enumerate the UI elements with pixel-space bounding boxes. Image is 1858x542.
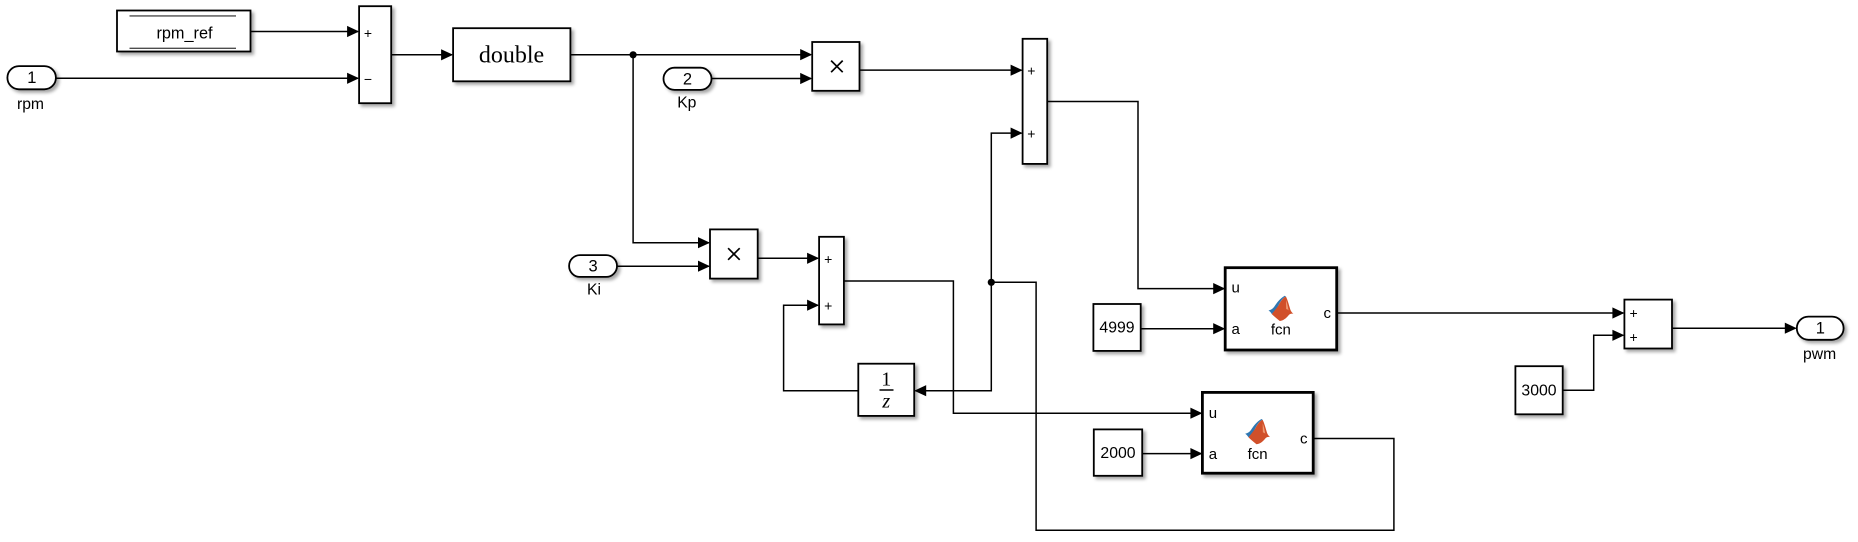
Product1 <box>812 42 859 91</box>
wire Product1 to Sum2 <box>860 69 1022 71</box>
wire Constant 4999 to fcn1 a <box>1141 328 1224 330</box>
svg-text:+: + <box>364 25 372 41</box>
svg-text:Kp: Kp <box>677 94 696 111</box>
svg-text:double: double <box>479 43 544 69</box>
svg-text:+: + <box>1630 305 1638 321</box>
Constant 2000 <box>1094 429 1142 475</box>
wire junction down to Unit Delay input <box>915 282 991 390</box>
svg-text:1: 1 <box>1816 320 1825 338</box>
Inport 1 rpm <box>7 66 56 113</box>
svg-text:1: 1 <box>27 69 36 87</box>
Constant 4999 <box>1093 304 1140 351</box>
Outport 1 pwm <box>1797 317 1844 363</box>
svg-text:+: + <box>824 297 832 313</box>
wire Constant 2000 to fcn2 a <box>1142 453 1201 455</box>
svg-text:c: c <box>1300 431 1308 448</box>
svg-text:3000: 3000 <box>1521 383 1556 400</box>
svg-text:4999: 4999 <box>1099 320 1134 337</box>
wire Product2 to Sum3 <box>758 257 818 259</box>
wire Inport3 Ki to Product2 <box>617 265 709 267</box>
svg-text:Ki: Ki <box>587 281 601 298</box>
svg-text:a: a <box>1209 446 1218 463</box>
svg-text:fcn: fcn <box>1271 321 1291 338</box>
svg-text:+: + <box>824 251 832 267</box>
Sum2 tall plus-plus <box>1023 39 1048 164</box>
svg-text:pwm: pwm <box>1803 346 1836 363</box>
svg-text:u: u <box>1209 405 1217 422</box>
svg-text:a: a <box>1232 321 1241 338</box>
wire fcn1 c to Sum4 <box>1337 312 1624 314</box>
Sum1 plus-minus <box>359 6 391 103</box>
MATLAB Function fcn1 <box>1225 268 1337 350</box>
svg-text:fcn: fcn <box>1248 446 1268 463</box>
wire Sum3 to fcn2 u <box>844 281 1201 413</box>
wire Inport1 to Sum1 <box>56 77 358 79</box>
wire double to Product1 <box>570 54 811 56</box>
MATLAB Function fcn2 <box>1202 392 1313 473</box>
svg-text:rpm_ref: rpm_ref <box>156 25 213 43</box>
matlab logo fcn2 <box>1245 419 1270 444</box>
Inport 2 Kp <box>664 68 712 112</box>
wire junction down to Product2 <box>633 55 709 243</box>
Sum3 integrator plus-plus <box>819 237 844 325</box>
svg-text:2: 2 <box>683 70 692 88</box>
svg-text:rpm: rpm <box>17 96 44 113</box>
wire fcn2 c feedback loop <box>991 282 1394 530</box>
From Workspace rpm_ref <box>117 11 251 52</box>
wire junction up to Sum2 second input <box>991 133 1021 282</box>
svg-text:1: 1 <box>881 369 891 391</box>
wire Unit Delay out to Sum3 second input <box>784 305 859 391</box>
wire Constant 3000 to Sum4 <box>1563 335 1624 390</box>
matlab logo fcn1 <box>1269 296 1294 321</box>
Inport 3 Ki <box>569 255 617 298</box>
svg-text:c: c <box>1324 305 1332 322</box>
node junction dot feedback <box>988 279 995 286</box>
svg-text:3: 3 <box>589 257 598 275</box>
node junction dot after double <box>630 51 637 58</box>
Constant 3000 <box>1515 366 1562 414</box>
wire Sum1 to double <box>391 54 452 56</box>
wire Inport2 Kp to Product1 <box>712 78 812 80</box>
Data Type Conversion double <box>453 28 570 81</box>
Product2 <box>710 229 758 278</box>
Unit Delay 1/z <box>858 364 914 416</box>
wire Sum2 to fcn1 u <box>1047 102 1224 289</box>
svg-text:2000: 2000 <box>1100 445 1135 462</box>
svg-text:z: z <box>881 391 890 413</box>
wire Sum4 to Outport pwm <box>1672 327 1796 329</box>
svg-text:+: + <box>1630 329 1638 345</box>
svg-text:+: + <box>1027 63 1035 79</box>
svg-text:−: − <box>364 71 372 87</box>
wire rpm_ref to Sum1 <box>251 31 359 33</box>
svg-text:u: u <box>1232 280 1240 297</box>
svg-text:+: + <box>1027 125 1035 141</box>
Sum4 output plus-plus <box>1624 300 1672 349</box>
